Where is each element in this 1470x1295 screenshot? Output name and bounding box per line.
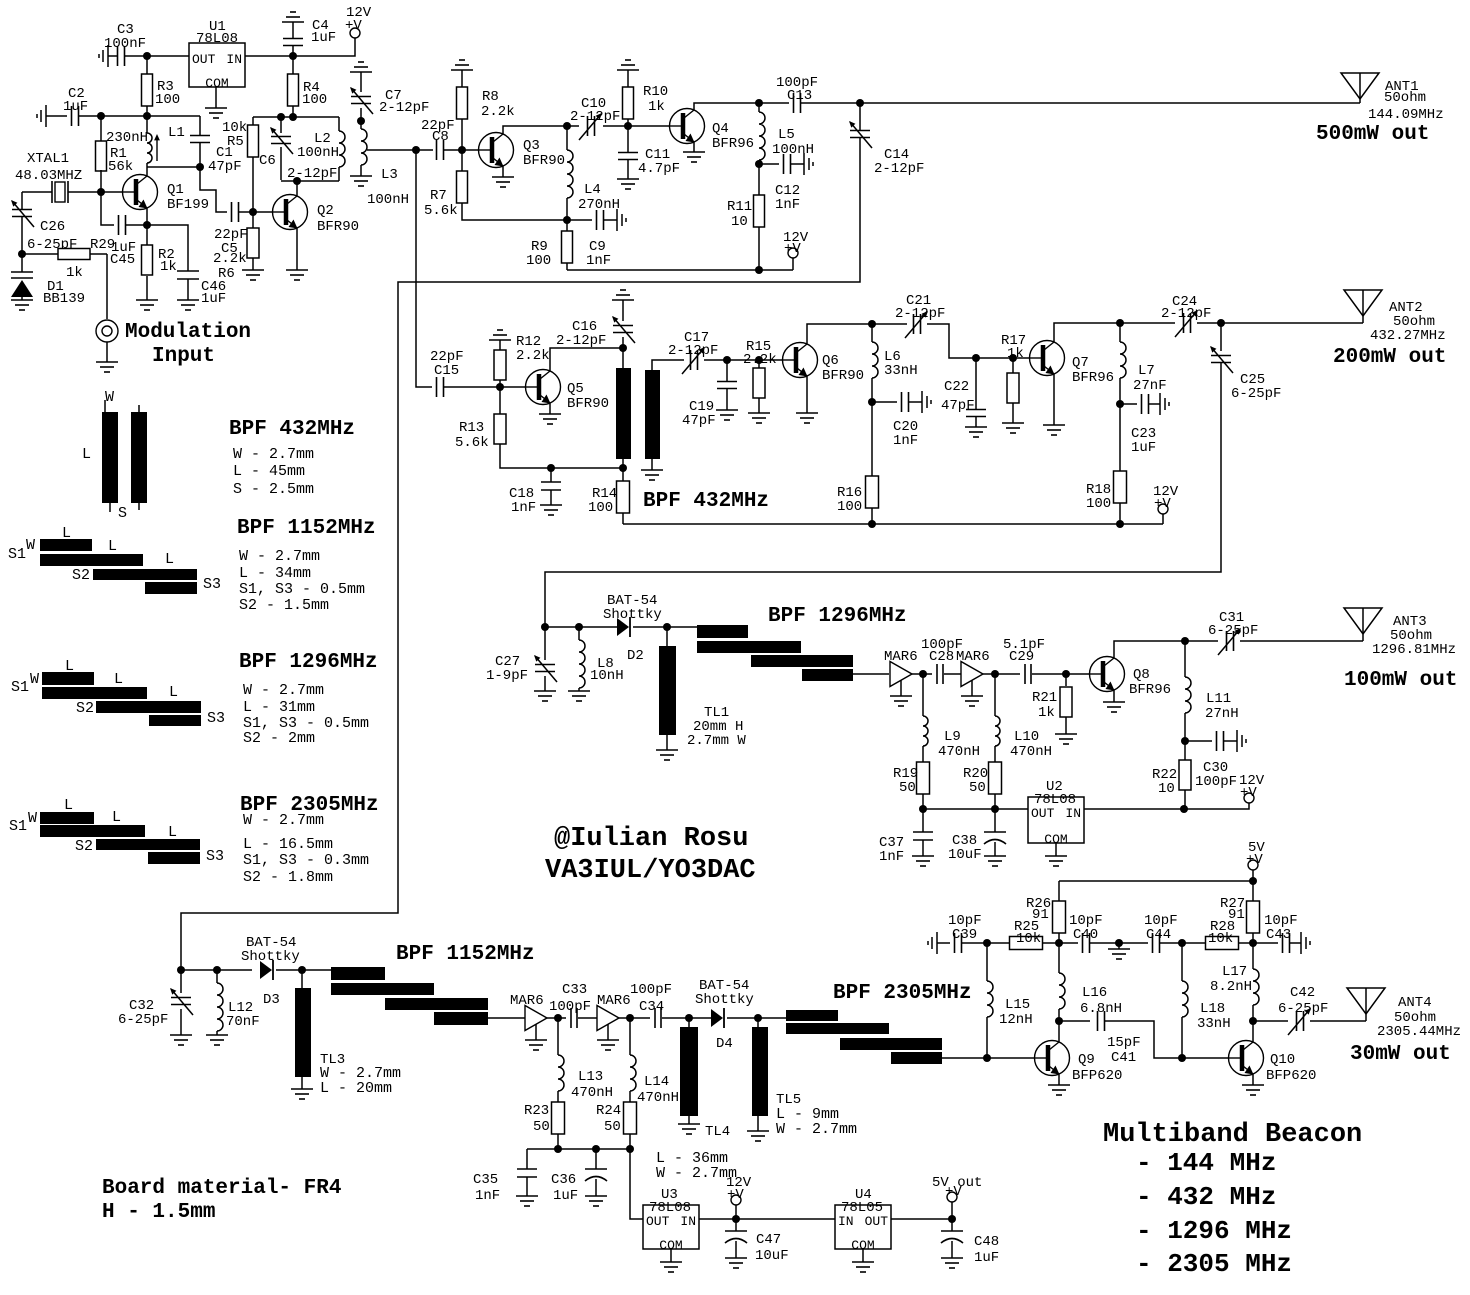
svg-text:R7: R7 xyxy=(430,188,447,204)
resistor R2 1k xyxy=(146,225,148,245)
variable capacitor C14 2-12pF xyxy=(859,103,861,130)
svg-text:2-12pF: 2-12pF xyxy=(895,306,945,322)
svg-text:@Iulian Rosu: @Iulian Rosu xyxy=(554,824,748,854)
wire to ANT1 xyxy=(860,102,1360,104)
wire 12V bus stage2 xyxy=(623,523,1163,525)
svg-text:+V: +V xyxy=(1154,496,1171,512)
BPF 2305MHz layout bar S3 xyxy=(148,852,200,864)
svg-text:COM: COM xyxy=(205,76,228,91)
svg-text:BPF 1152MHz: BPF 1152MHz xyxy=(237,517,376,540)
svg-text:100: 100 xyxy=(526,253,551,269)
wire Q1 collector xyxy=(146,167,148,175)
svg-text:470nH: 470nH xyxy=(571,1085,613,1101)
svg-text:Q4: Q4 xyxy=(712,121,729,137)
svg-text:1uF: 1uF xyxy=(553,1188,578,1204)
svg-text:230nH: 230nH xyxy=(106,130,148,146)
BPF 1296MHz layout bar 3 xyxy=(96,701,201,713)
svg-text:Shottky: Shottky xyxy=(241,949,300,965)
node emitter xyxy=(143,221,151,229)
capacitor C40 10pF xyxy=(1059,942,1078,944)
svg-text:L - 20mm: L - 20mm xyxy=(320,1080,392,1097)
wire U2 IN xyxy=(1084,808,1184,810)
modulation input connector xyxy=(96,320,118,342)
svg-text:6-25pF: 6-25pF xyxy=(1278,1001,1328,1017)
capacitor C15 22pF xyxy=(437,377,444,397)
svg-text:BFP620: BFP620 xyxy=(1266,1068,1316,1084)
svg-text:Modulation: Modulation xyxy=(125,321,251,344)
svg-text:15pF: 15pF xyxy=(1107,1035,1141,1051)
BPF 1296MHz bar 3 xyxy=(751,655,853,667)
node C48 xyxy=(948,1215,956,1223)
transistor Q10 BFP620 xyxy=(1229,1041,1264,1076)
node L4 bottom xyxy=(563,216,571,224)
svg-text:C28: C28 xyxy=(929,649,954,665)
wire Q7 emitter xyxy=(1053,375,1055,425)
svg-text:C29: C29 xyxy=(1009,649,1034,665)
svg-text:78L08: 78L08 xyxy=(649,1200,691,1216)
svg-text:100: 100 xyxy=(588,500,613,516)
svg-text:R11: R11 xyxy=(727,199,752,215)
capacitor C33 100pF xyxy=(547,1017,566,1019)
capacitor C48 1uF xyxy=(951,1219,953,1231)
svg-text:1nF: 1nF xyxy=(775,197,800,213)
svg-text:C40: C40 xyxy=(1073,927,1098,943)
node C27 top xyxy=(541,623,549,631)
svg-text:C47: C47 xyxy=(756,1232,781,1248)
svg-text:2-12pF: 2-12pF xyxy=(556,333,606,349)
resistor R26 91 xyxy=(1058,881,1060,901)
svg-text:H - 1.5mm: H - 1.5mm xyxy=(102,1201,215,1224)
resistor R21 1k xyxy=(1062,670,1070,678)
node mid ground xyxy=(1115,939,1123,947)
node C14 top xyxy=(856,99,864,107)
capacitor C18 1nF xyxy=(547,464,555,472)
svg-text:OUT: OUT xyxy=(646,1214,670,1229)
amplifier MAR6 b xyxy=(961,662,983,687)
svg-text:BFR90: BFR90 xyxy=(317,219,359,235)
resistor R27 91 xyxy=(1252,881,1254,901)
svg-text:L11: L11 xyxy=(1206,691,1231,707)
BPF 432MHz resonator bar 1 xyxy=(622,348,624,370)
wire to BPF 2305 xyxy=(758,1017,786,1019)
inductor L5 100nH xyxy=(758,103,760,112)
svg-text:IN: IN xyxy=(1065,806,1081,821)
transistor Q1 BF199 xyxy=(123,175,158,210)
diode D2 BAT-54 Shottky xyxy=(579,626,618,628)
inductor L16 6.8nH xyxy=(1058,943,1060,973)
svg-text:1nF: 1nF xyxy=(511,500,536,516)
svg-text:L16: L16 xyxy=(1082,985,1107,1001)
svg-text:2-12pF: 2-12pF xyxy=(668,343,718,359)
ground xyxy=(670,1249,672,1262)
svg-text:R23: R23 xyxy=(524,1103,549,1119)
svg-text:TL4: TL4 xyxy=(705,1124,730,1140)
antenna ANT3 xyxy=(1344,608,1382,641)
wire Q7 collector xyxy=(1054,323,1120,341)
resistor R25 10k xyxy=(987,942,1009,944)
svg-text:L: L xyxy=(165,551,174,568)
svg-text:OUT: OUT xyxy=(1031,806,1055,821)
node 12V-A xyxy=(289,52,297,60)
node C7-L3 xyxy=(357,117,365,125)
svg-text:L: L xyxy=(62,525,71,542)
node C22 top xyxy=(972,354,980,362)
svg-text:78L08: 78L08 xyxy=(196,31,238,47)
svg-text:BF199: BF199 xyxy=(167,197,209,213)
wire link to C15 xyxy=(416,150,432,387)
wire L2 bottom xyxy=(281,180,339,182)
node R19 bottom xyxy=(919,805,927,813)
inductor L4 270nH xyxy=(566,126,568,150)
transistor Q6 BFR90 xyxy=(783,343,818,378)
svg-text:2-12pF: 2-12pF xyxy=(874,161,924,177)
node L11 bottom xyxy=(1181,737,1189,745)
wire Q8 emitter xyxy=(1113,691,1115,702)
capacitor C22 47pF xyxy=(975,358,977,409)
svg-text:2305.44MHz: 2305.44MHz xyxy=(1377,1024,1461,1040)
svg-text:Q2: Q2 xyxy=(317,203,334,219)
resistor R18 100 xyxy=(1119,404,1121,471)
node L6 bottom xyxy=(868,398,876,406)
capacitor C44 10pF xyxy=(1119,942,1148,944)
node R20 bottom xyxy=(991,805,999,813)
capacitor C46 1uF xyxy=(147,225,188,271)
svg-text:2-12pF: 2-12pF xyxy=(570,109,620,125)
svg-text:Q3: Q3 xyxy=(523,138,540,154)
svg-text:100pF: 100pF xyxy=(630,982,672,998)
ground xyxy=(1055,843,1057,856)
wire U3 IN xyxy=(699,1218,835,1220)
capacitor C35 1nF xyxy=(526,1149,528,1169)
svg-text:L - 45mm: L - 45mm xyxy=(233,463,305,480)
svg-text:L - 34mm: L - 34mm xyxy=(239,565,311,582)
wire Q6 collector xyxy=(807,324,872,343)
svg-text:2.2k: 2.2k xyxy=(213,251,247,267)
node R3-L1 xyxy=(143,112,151,120)
node C47 xyxy=(732,1215,740,1223)
wire BPF out xyxy=(853,673,889,675)
svg-text:R24: R24 xyxy=(596,1103,621,1119)
voltage regulator U4 78L05 xyxy=(835,1205,891,1249)
svg-text:Q1: Q1 xyxy=(167,182,184,198)
svg-text:W: W xyxy=(30,671,39,688)
resistor R7 5.6k xyxy=(461,150,463,171)
svg-text:50: 50 xyxy=(533,1119,550,1135)
svg-text:Multiband Beacon: Multiband Beacon xyxy=(1103,1120,1362,1150)
node R24 bottom xyxy=(626,1145,634,1153)
wire Q5 emitter xyxy=(549,404,551,414)
node TL4 top xyxy=(685,1014,693,1022)
svg-text:12nH: 12nH xyxy=(999,1012,1033,1028)
stub TL4 xyxy=(688,1018,690,1027)
svg-text:10uF: 10uF xyxy=(948,847,982,863)
terminal +V 5V xyxy=(1252,870,1254,881)
BPF 2305MHz bar 3 xyxy=(840,1038,942,1050)
wire xyxy=(245,55,293,57)
BPF 432MHz layout bar A xyxy=(104,400,106,412)
capacitor C23 1uF xyxy=(1120,403,1137,405)
svg-text:1-9pF: 1-9pF xyxy=(486,668,528,684)
svg-text:IN: IN xyxy=(680,1214,696,1229)
svg-text:1k: 1k xyxy=(66,265,83,281)
resistor R28 10k xyxy=(1182,942,1205,944)
wire BPF1152 out xyxy=(488,1017,525,1019)
amplifier MAR6 c xyxy=(525,1006,547,1031)
transistor Q9 BFP620 xyxy=(1035,1041,1070,1076)
svg-text:R6: R6 xyxy=(218,266,235,282)
resistor R14 100 xyxy=(622,468,624,481)
wire Q3 collector xyxy=(503,126,567,133)
inductor L2 100nH xyxy=(338,117,340,131)
svg-text:BPF 1296MHz: BPF 1296MHz xyxy=(239,651,378,674)
svg-text:100nH: 100nH xyxy=(367,192,409,208)
svg-text:2.2k: 2.2k xyxy=(516,348,550,364)
svg-text:1uF: 1uF xyxy=(1131,440,1156,456)
wire U4 OUT xyxy=(891,1218,952,1220)
svg-text:L17: L17 xyxy=(1222,964,1247,980)
svg-text:100mW out: 100mW out xyxy=(1344,669,1457,692)
BPF 1152MHz bar 4 xyxy=(434,1012,488,1025)
svg-text:W - 2.7mm: W - 2.7mm xyxy=(233,446,314,463)
capacitor C43 10pF xyxy=(1253,942,1278,944)
voltage regulator U2 78L08 xyxy=(1028,797,1084,843)
svg-text:D4: D4 xyxy=(716,1036,733,1052)
capacitor C30 100pF xyxy=(1185,740,1212,742)
svg-text:S1: S1 xyxy=(9,818,27,835)
inductor L9 470nH xyxy=(922,674,924,716)
svg-text:BPF 1296MHz: BPF 1296MHz xyxy=(768,605,907,628)
svg-text:W: W xyxy=(28,810,37,827)
node Q2 base xyxy=(249,208,257,216)
svg-text:1uF: 1uF xyxy=(974,1250,999,1266)
svg-text:C39: C39 xyxy=(952,927,977,943)
svg-text:1uF: 1uF xyxy=(201,291,226,307)
svg-text:1nF: 1nF xyxy=(879,849,904,865)
wire modulation xyxy=(106,254,108,319)
variable capacitor C26 6-25pF xyxy=(21,192,23,209)
variable capacitor C10 2-12pF xyxy=(567,125,579,127)
capacitor C34 100pF xyxy=(619,1017,650,1019)
node bar1 bottom xyxy=(622,459,624,468)
node TL3 top xyxy=(298,966,306,974)
node Q2 collector xyxy=(293,177,301,185)
svg-text:2.7mm W: 2.7mm W xyxy=(687,733,746,749)
transistor Q3 BFR90 xyxy=(479,133,514,168)
BPF 1152MHz bar 2 xyxy=(331,983,434,995)
svg-text:200mW out: 200mW out xyxy=(1333,346,1446,369)
svg-text:- 1296 MHz: - 1296 MHz xyxy=(1136,1216,1292,1246)
svg-text:R8: R8 xyxy=(482,89,499,105)
svg-text:S2: S2 xyxy=(75,838,93,855)
svg-text:C42: C42 xyxy=(1290,985,1315,1001)
wire BPF2305 out xyxy=(942,1057,1035,1059)
svg-text:27nH: 27nH xyxy=(1205,706,1239,722)
wire rail-C xyxy=(253,116,339,118)
variable capacitor C6 2-12pF xyxy=(280,117,282,133)
svg-text:MAR6: MAR6 xyxy=(597,993,631,1009)
svg-text:L: L xyxy=(169,684,178,701)
capacitor C38 10uF xyxy=(994,809,996,832)
svg-text:W: W xyxy=(105,389,114,406)
svg-text:100nH: 100nH xyxy=(297,145,339,161)
BPF 1152MHz bar 3 xyxy=(385,998,488,1010)
svg-text:100: 100 xyxy=(1086,496,1111,512)
svg-text:500mW out: 500mW out xyxy=(1316,123,1429,146)
resistor R1 56k xyxy=(100,116,102,142)
svg-text:6-25pF: 6-25pF xyxy=(1231,386,1281,402)
BPF 2305MHz bar 1 xyxy=(786,1010,838,1021)
svg-text:470nH: 470nH xyxy=(1010,744,1052,760)
terminal 5V out xyxy=(951,1202,953,1219)
BPF 1152MHz layout bar S1 xyxy=(40,539,92,551)
BPF 1296MHz layout bar S1 xyxy=(42,672,94,685)
inductor L15 12nH xyxy=(986,943,988,981)
svg-text:C35: C35 xyxy=(473,1172,498,1188)
voltage regulator U3 78L08 xyxy=(643,1205,699,1249)
capacitor C45 1uF xyxy=(101,192,114,225)
capacitor C8 22pF xyxy=(416,149,433,151)
ground xyxy=(862,1249,864,1262)
svg-text:L10: L10 xyxy=(1014,729,1039,745)
svg-text:C34: C34 xyxy=(639,999,664,1015)
svg-text:1nF: 1nF xyxy=(586,253,611,269)
svg-text:BFR90: BFR90 xyxy=(822,368,864,384)
svg-text:C15: C15 xyxy=(434,363,459,379)
svg-text:L18: L18 xyxy=(1200,1001,1225,1017)
transistor Q8 BFR96 xyxy=(1090,657,1125,692)
svg-text:OUT: OUT xyxy=(192,52,216,67)
inductor L3 100nH xyxy=(361,129,367,165)
svg-text:432.27MHz: 432.27MHz xyxy=(1370,328,1446,344)
BPF 2305MHz bar 2 xyxy=(786,1023,889,1034)
wire 5V bus xyxy=(1059,880,1253,882)
svg-text:10uF: 10uF xyxy=(755,1248,789,1264)
svg-text:C26: C26 xyxy=(40,219,65,235)
BPF 1152MHz layout bar 3 xyxy=(93,569,197,580)
svg-text:S3: S3 xyxy=(206,848,224,865)
capacitor C19 47pF xyxy=(726,360,728,381)
node base xyxy=(97,188,105,196)
svg-text:27nF: 27nF xyxy=(1133,378,1167,394)
svg-text:MAR6: MAR6 xyxy=(510,993,544,1009)
svg-text:+V: +V xyxy=(945,1184,962,1200)
svg-text:L: L xyxy=(64,797,73,814)
resistor R5 10k xyxy=(252,117,254,125)
svg-text:Q7: Q7 xyxy=(1072,355,1089,371)
svg-text:W - 2.7mm: W - 2.7mm xyxy=(656,1165,737,1182)
inductor L11 27nH xyxy=(1184,641,1186,677)
resistor R19 50 xyxy=(917,762,930,794)
capacitor C1 47pF xyxy=(199,116,201,135)
svg-text:Q8: Q8 xyxy=(1133,667,1150,683)
wire Q3 emitter xyxy=(502,167,504,177)
BPF 1296MHz layout bar S3 xyxy=(149,715,201,726)
svg-text:1k: 1k xyxy=(160,259,177,275)
svg-text:33nH: 33nH xyxy=(1197,1016,1231,1032)
svg-text:10nH: 10nH xyxy=(590,668,624,684)
wire bar2 top xyxy=(652,360,684,370)
BPF 432MHz resonator bar 2 xyxy=(645,370,660,459)
svg-text:30mW out: 30mW out xyxy=(1350,1043,1451,1066)
svg-text:5.6k: 5.6k xyxy=(424,203,458,219)
antenna ANT4 xyxy=(1347,988,1385,1021)
svg-text:1k: 1k xyxy=(1038,705,1055,721)
node 5V xyxy=(1249,877,1257,885)
node varactor xyxy=(18,250,26,258)
node C6 top xyxy=(277,113,285,121)
resistor R9 100 xyxy=(566,220,568,231)
crystal XTAL1 48.03MHZ xyxy=(52,181,68,203)
svg-text:70nF: 70nF xyxy=(226,1014,260,1030)
node R23 bottom xyxy=(554,1145,562,1153)
node C32 top xyxy=(177,966,185,974)
svg-text:W - 2.7mm: W - 2.7mm xyxy=(239,548,320,565)
svg-text:S2: S2 xyxy=(72,567,90,584)
BPF 2305MHz layout bar S1 xyxy=(40,812,94,824)
resistor R8 2.2k xyxy=(451,60,473,70)
svg-text:1nF: 1nF xyxy=(475,1188,500,1204)
variable capacitor C24 2-12pF xyxy=(1120,322,1175,324)
wire Q8 collector xyxy=(1114,641,1185,657)
svg-text:BB139: BB139 xyxy=(43,291,85,307)
svg-text:2-12pF: 2-12pF xyxy=(1161,306,1211,322)
resistor R6 2.2k xyxy=(252,212,254,228)
inductor L14 470nH xyxy=(629,1018,631,1055)
svg-text:IN: IN xyxy=(226,52,242,67)
amplifier MAR6 a xyxy=(890,662,912,687)
svg-text:6.8nH: 6.8nH xyxy=(1080,1001,1122,1017)
svg-text:C33: C33 xyxy=(562,982,587,998)
inductor L17 8.2nH xyxy=(1252,943,1254,969)
diode D4 BAT-54 Shottky xyxy=(689,1017,712,1019)
resistor R16 100 xyxy=(871,402,873,476)
svg-text:470nH: 470nH xyxy=(637,1090,679,1106)
svg-text:C48: C48 xyxy=(974,1234,999,1250)
inductor L7 27nF xyxy=(1119,323,1121,342)
BPF 1296MHz bar 4 xyxy=(802,669,853,681)
svg-text:L3: L3 xyxy=(381,167,398,183)
svg-text:L9: L9 xyxy=(944,729,961,745)
inductor L10 470nH xyxy=(994,674,996,716)
svg-text:L: L xyxy=(65,658,74,675)
svg-text:6-25pF: 6-25pF xyxy=(1208,623,1258,639)
resistor R10 1k xyxy=(617,60,639,70)
svg-text:Shottky: Shottky xyxy=(695,992,754,1008)
node Q4 base xyxy=(624,122,632,130)
svg-text:1296.81MHz: 1296.81MHz xyxy=(1372,642,1456,658)
resistor R11 10 xyxy=(758,164,760,195)
node L15 bottom xyxy=(983,1054,991,1062)
svg-text:91: 91 xyxy=(1032,907,1049,923)
wire link to stage3 xyxy=(545,363,1221,627)
capacitor C39 10pF xyxy=(928,932,937,954)
wire Q2 emitter xyxy=(296,229,298,270)
antenna ANT2 xyxy=(1344,290,1382,323)
wire Q4 collector xyxy=(694,103,759,109)
svg-text:MAR6: MAR6 xyxy=(956,649,990,665)
svg-text:50: 50 xyxy=(969,780,986,796)
svg-text:D3: D3 xyxy=(263,992,280,1008)
node L9 top xyxy=(919,670,927,678)
inductor L18 33nH xyxy=(1181,943,1183,981)
stub TL5 xyxy=(757,1018,759,1027)
capacitor C36 1uF xyxy=(592,1145,600,1153)
stub TL1 20mm H 2.7mm W xyxy=(666,627,668,646)
inductor L13 470nH xyxy=(557,1018,559,1055)
terminal +V 12V stage4 xyxy=(735,1205,737,1219)
svg-text:100pF: 100pF xyxy=(1195,774,1237,790)
svg-text:C13: C13 xyxy=(787,88,812,104)
